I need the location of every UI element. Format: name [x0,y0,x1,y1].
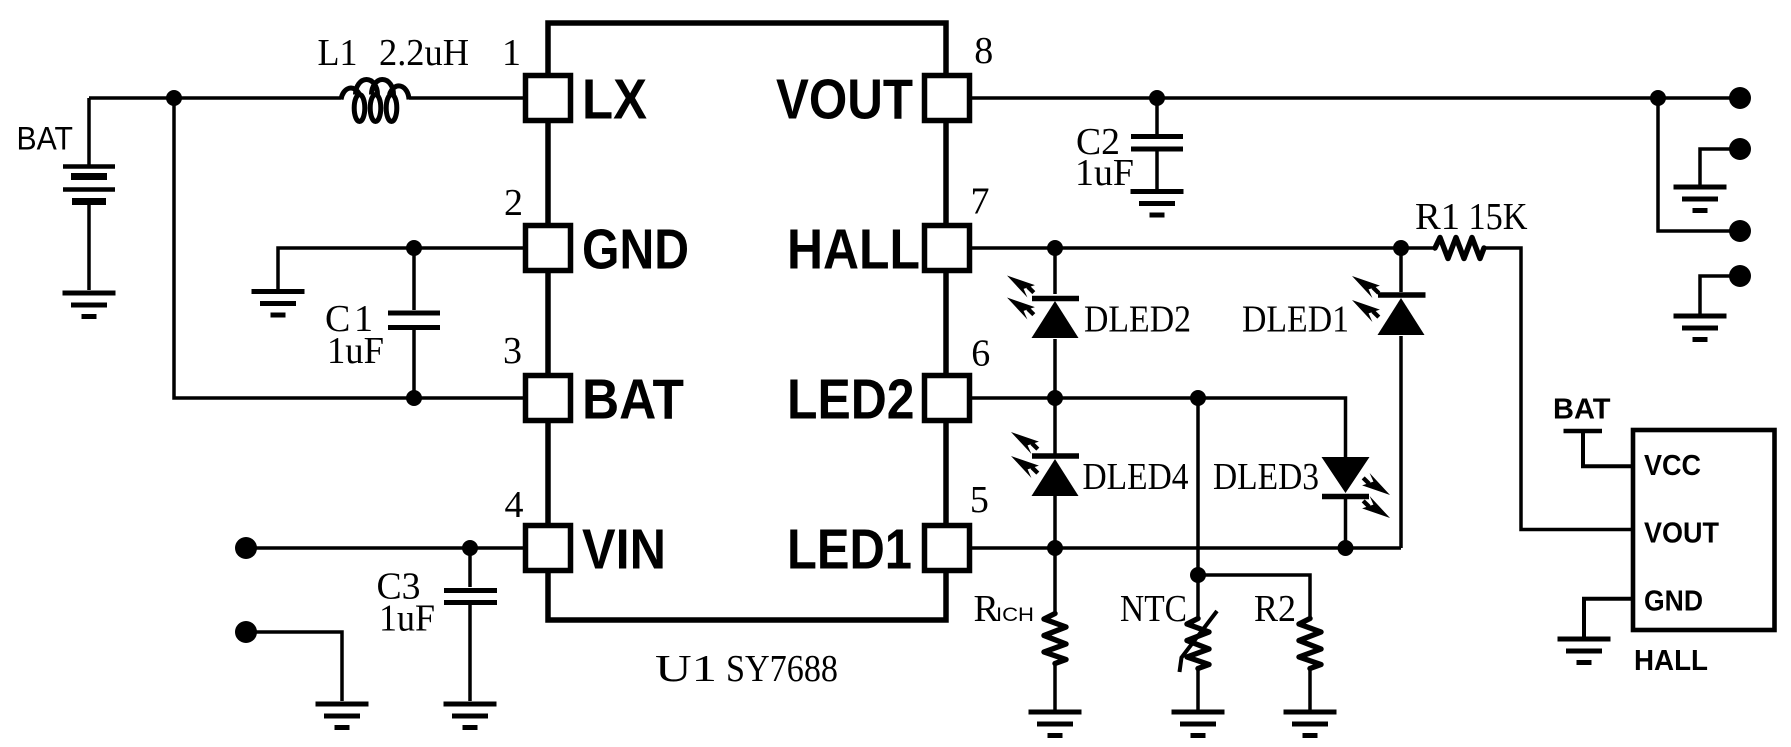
junction dot output branch [1650,90,1666,106]
hall sensor block [1633,430,1775,630]
svg-text:4: 4 [505,484,524,526]
ground (C2) [1131,192,1184,216]
svg-text:GND: GND [1644,586,1703,618]
battery BAT [63,98,115,290]
ground (C1 / GND pin stub) [252,292,305,316]
terminal dot VIN input [235,537,257,559]
capacitor C3 [444,548,497,701]
resistor RICH [1044,548,1066,710]
svg-text:L1: L1 [318,32,358,74]
resistor R2 [1299,619,1321,711]
pin 6 square (LED2) [925,376,970,421]
wire battery plus to inductor L1 [89,96,341,100]
ground (C3) [444,704,497,728]
ground (second terminal) [1674,187,1727,211]
junction dot C1 bottom [406,390,422,406]
IC U1 body [548,23,946,620]
thermistor NTC [1180,398,1218,710]
svg-text:1uF: 1uF [327,330,384,372]
ground (hall block) [1558,639,1611,663]
terminal dot output third [1729,220,1751,242]
junction dot DLED3 cathode [1338,540,1354,556]
wire HALL pin row [970,246,1436,250]
svg-text:8: 8 [974,30,993,72]
hall block GND stub to ground [1584,599,1633,637]
wire second terminal to ground [1700,149,1739,185]
svg-text:LED1: LED1 [787,518,912,581]
terminal dot output fourth [1729,265,1751,287]
label RICH [974,588,1035,630]
wire VOUT pin to output terminal [970,96,1741,100]
capacitor C1 [388,248,440,398]
wire output branch down to third terminal [1658,98,1740,231]
svg-text:1uF: 1uF [1075,152,1134,194]
svg-text:SY7688: SY7688 [726,648,838,690]
pin 8 square (VOUT) [925,76,970,121]
pin 1 square (LX) [526,76,571,121]
svg-text:2: 2 [504,182,523,224]
ground (NTC) [1172,712,1225,736]
svg-text:2.2uH: 2.2uH [379,32,469,74]
LED DLED1 [1352,248,1426,548]
svg-text:VOUT: VOUT [1644,518,1719,550]
svg-text:LX: LX [582,68,647,131]
wire NTC node to R2 [1198,575,1310,619]
terminal dot lower-left [235,621,257,643]
svg-text:VCC: VCC [1644,450,1701,482]
wire VIN terminal to VIN pin [246,546,526,550]
terminal dot output top [1729,87,1751,109]
junction dot NTC branch [1190,390,1206,406]
BAT supply stub to VCC [1564,431,1634,466]
svg-text:DLED3: DLED3 [1213,456,1319,498]
svg-text:HALL: HALL [787,218,920,281]
svg-text:DLED2: DLED2 [1084,299,1191,341]
svg-text:DLED4: DLED4 [1083,456,1189,498]
LED DLED3 [1322,457,1391,548]
svg-text:7: 7 [971,181,990,223]
svg-text:R2: R2 [1254,588,1296,630]
ground (fourth terminal) [1674,316,1727,340]
junction dot DLED2 cathode [1047,390,1063,406]
junction dot C2 top [1149,90,1165,106]
svg-text:BAT: BAT [1553,394,1611,426]
junction dot DLED1 anode [1393,240,1409,256]
svg-text:HALL: HALL [1634,645,1708,677]
svg-text:DLED1: DLED1 [1242,299,1349,341]
svg-text:BAT: BAT [582,368,684,431]
inductor L1 [341,80,409,122]
junction dot C3 top [462,540,478,556]
svg-text:3: 3 [503,330,522,372]
svg-text:LED2: LED2 [787,368,915,431]
wire LED2 pin row to DLED3 anode [970,398,1346,457]
wire L1 to pin LX [409,96,526,100]
ground (RICH) [1029,712,1082,736]
wire node A down to BAT pin row [174,98,526,398]
wire LED1 pin row [970,546,1402,550]
wire R1 to hall sensor VOUT [1484,248,1633,530]
svg-text:ICH: ICH [996,605,1034,626]
junction dot C1 top [406,240,422,256]
svg-text:1: 1 [502,32,521,74]
pin 7 square (HALL) [925,226,970,271]
terminal dot output second [1729,138,1751,160]
svg-text:VIN: VIN [582,518,666,581]
svg-text:BAT: BAT [17,121,74,157]
LED DLED2 [1007,248,1079,398]
svg-text:GND: GND [582,218,689,281]
svg-text:VOUT: VOUT [776,68,913,131]
ground (R2) [1284,712,1337,736]
svg-text:5: 5 [970,479,989,521]
capacitor C2 [1131,98,1183,189]
junction dot NTC R2 node [1190,567,1206,583]
node A junction dot [166,90,182,106]
svg-text:15K: 15K [1469,196,1528,238]
pin 2 square (GND) [526,226,571,271]
svg-text:6: 6 [971,333,990,375]
pin 5 square (LED1) [925,526,970,571]
wire lower-left terminal to ground [246,632,342,701]
svg-text:NTC: NTC [1120,588,1187,630]
pin 4 square (VIN) [526,526,571,571]
ground (lower-left terminal) [316,704,369,728]
junction dot DLED2 anode [1047,240,1063,256]
resistor R1 [1435,238,1484,259]
wire fourth terminal to ground [1700,276,1739,314]
wire ground stub to GND pin [278,248,526,290]
svg-text:1uF: 1uF [379,598,435,640]
svg-text:U1: U1 [655,648,717,690]
junction dot DLED4 cathode [1047,540,1063,556]
pin 3 square (BAT) [526,376,571,421]
LED DLED4 [1011,398,1079,548]
svg-text:R1: R1 [1415,196,1460,238]
ground (battery) [63,293,116,317]
